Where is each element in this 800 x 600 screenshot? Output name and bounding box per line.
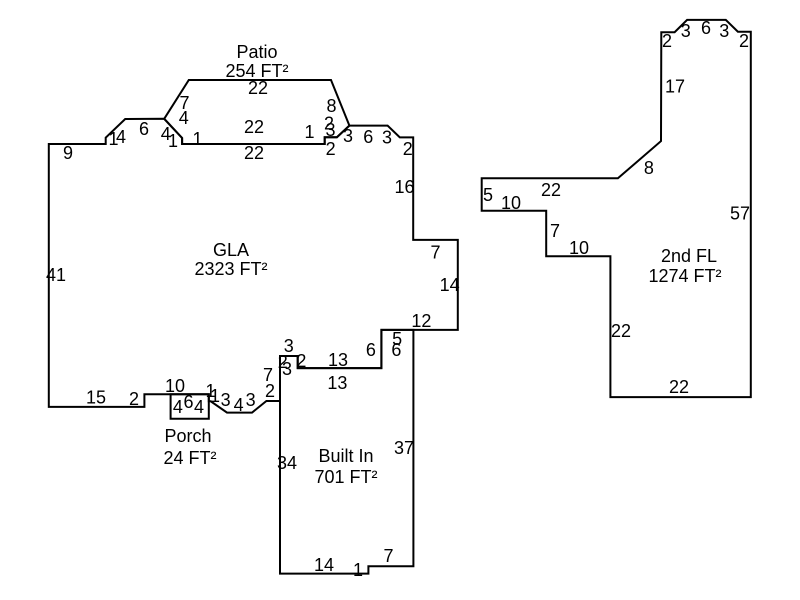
svg-text:22: 22 bbox=[244, 117, 264, 137]
svg-text:6: 6 bbox=[366, 340, 376, 360]
svg-text:34: 34 bbox=[277, 453, 297, 473]
svg-text:1: 1 bbox=[210, 386, 220, 406]
svg-text:22: 22 bbox=[611, 321, 631, 341]
svg-text:16: 16 bbox=[394, 177, 414, 197]
svg-text:2nd FL: 2nd FL bbox=[661, 246, 717, 266]
svg-text:4: 4 bbox=[194, 397, 204, 417]
svg-text:2323 FT²: 2323 FT² bbox=[194, 259, 267, 279]
Built In outline bbox=[280, 330, 413, 574]
svg-text:14: 14 bbox=[314, 555, 334, 575]
svg-text:7: 7 bbox=[383, 546, 393, 566]
svg-text:1274 FT²: 1274 FT² bbox=[648, 266, 721, 286]
svg-text:22: 22 bbox=[248, 78, 268, 98]
svg-text:10: 10 bbox=[165, 376, 185, 396]
svg-text:2: 2 bbox=[265, 381, 275, 401]
svg-text:3: 3 bbox=[681, 21, 691, 41]
svg-text:1: 1 bbox=[168, 131, 178, 151]
svg-text:2: 2 bbox=[662, 31, 672, 51]
Patio outline bbox=[164, 80, 349, 144]
svg-text:2: 2 bbox=[403, 139, 413, 159]
svg-text:2: 2 bbox=[326, 139, 336, 159]
svg-text:13: 13 bbox=[328, 350, 348, 370]
svg-text:4: 4 bbox=[179, 108, 189, 128]
svg-text:12: 12 bbox=[411, 311, 431, 331]
svg-text:1: 1 bbox=[353, 560, 363, 580]
svg-text:4: 4 bbox=[234, 395, 244, 415]
svg-text:15: 15 bbox=[86, 388, 106, 408]
svg-text:7: 7 bbox=[430, 243, 440, 263]
svg-text:5: 5 bbox=[483, 185, 493, 205]
svg-text:6: 6 bbox=[363, 127, 373, 147]
svg-text:1: 1 bbox=[304, 122, 314, 142]
svg-text:3: 3 bbox=[382, 128, 392, 148]
svg-text:1: 1 bbox=[192, 129, 202, 149]
GLA outline bbox=[49, 119, 458, 413]
svg-text:10: 10 bbox=[501, 193, 521, 213]
svg-text:6: 6 bbox=[139, 119, 149, 139]
svg-text:6: 6 bbox=[701, 18, 711, 38]
svg-text:7: 7 bbox=[550, 221, 560, 241]
svg-text:Patio: Patio bbox=[236, 42, 277, 62]
svg-text:41: 41 bbox=[46, 265, 66, 285]
svg-text:3: 3 bbox=[221, 390, 231, 410]
svg-text:2: 2 bbox=[739, 31, 749, 51]
svg-text:17: 17 bbox=[665, 77, 685, 97]
svg-text:4: 4 bbox=[173, 397, 183, 417]
svg-text:9: 9 bbox=[63, 143, 73, 163]
svg-text:3: 3 bbox=[719, 21, 729, 41]
svg-text:3: 3 bbox=[246, 390, 256, 410]
svg-text:3: 3 bbox=[282, 359, 292, 379]
svg-text:13: 13 bbox=[327, 373, 347, 393]
Porch outline bbox=[171, 394, 209, 418]
svg-text:22: 22 bbox=[669, 377, 689, 397]
svg-text:4: 4 bbox=[116, 127, 126, 147]
2nd FL outline bbox=[482, 20, 751, 397]
svg-text:57: 57 bbox=[730, 204, 750, 224]
svg-text:Built In: Built In bbox=[318, 446, 373, 466]
svg-text:24 FT²: 24 FT² bbox=[163, 448, 216, 468]
svg-text:6: 6 bbox=[391, 340, 401, 360]
svg-text:701 FT²: 701 FT² bbox=[314, 467, 377, 487]
svg-text:3: 3 bbox=[325, 120, 335, 140]
svg-text:22: 22 bbox=[244, 143, 264, 163]
svg-text:8: 8 bbox=[644, 158, 654, 178]
svg-text:6: 6 bbox=[183, 392, 193, 412]
svg-text:10: 10 bbox=[569, 238, 589, 258]
svg-text:37: 37 bbox=[394, 438, 414, 458]
svg-text:3: 3 bbox=[343, 126, 353, 146]
svg-text:22: 22 bbox=[541, 180, 561, 200]
svg-text:Porch: Porch bbox=[164, 426, 211, 446]
svg-text:14: 14 bbox=[440, 275, 460, 295]
svg-text:2: 2 bbox=[296, 351, 306, 371]
svg-text:2: 2 bbox=[129, 389, 139, 409]
svg-text:GLA: GLA bbox=[213, 240, 249, 260]
